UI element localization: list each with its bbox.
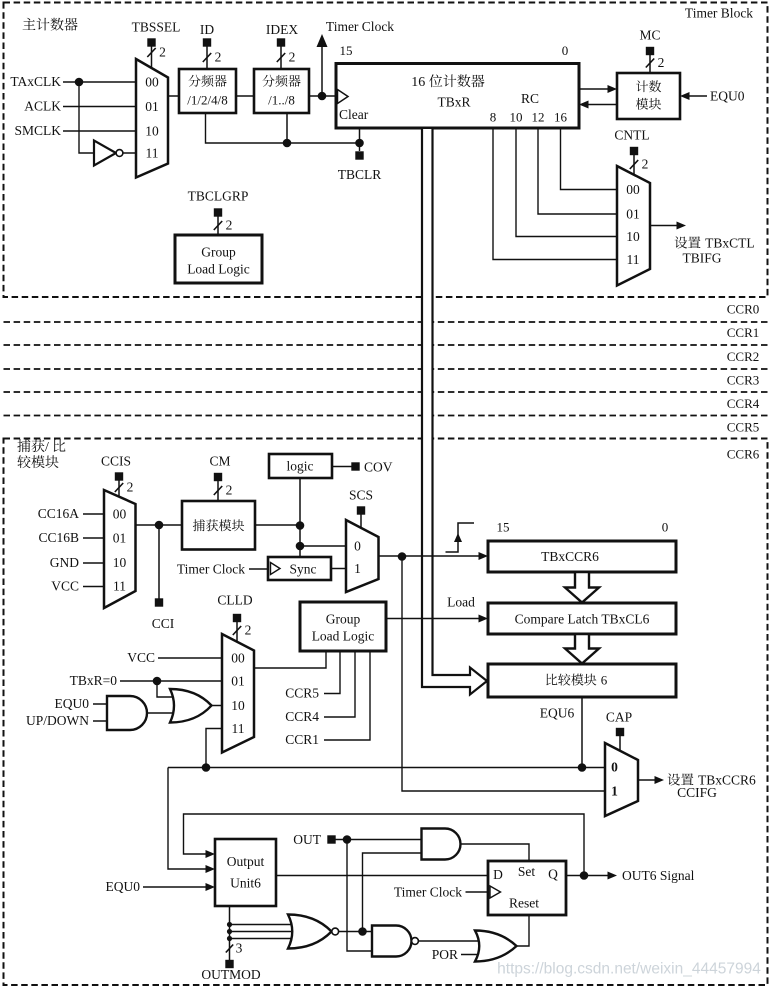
CCR1 row separator — [4, 344, 768, 346]
svg-text:12: 12 — [532, 110, 545, 125]
wire CCIS control — [118, 481, 120, 498]
svg-text:16: 16 — [554, 110, 568, 125]
wire outmod line1 to NOR — [230, 924, 294, 926]
svg-text:1: 1 — [611, 784, 618, 799]
svg-text:Timer Block: Timer Block — [685, 6, 753, 21]
svg-text:TBxCTL: TBxCTL — [705, 236, 755, 251]
svg-text:Compare Latch TBxCL6: Compare Latch TBxCL6 — [515, 612, 650, 627]
mux CNTL — [617, 166, 650, 286]
wire NAND to POR-OR — [419, 940, 481, 942]
wire TAxCLK input — [63, 81, 136, 83]
NOR gate — [288, 915, 332, 949]
wire outmod line3 to NOR — [230, 938, 294, 940]
svg-text:CCI: CCI — [152, 616, 175, 631]
wire POR input — [461, 954, 481, 956]
counter to count module arrow — [579, 88, 610, 90]
box Sync — [268, 557, 331, 580]
box Output Unit6 — [215, 839, 276, 906]
svg-text:VCC: VCC — [51, 579, 79, 594]
svg-text:00: 00 — [231, 651, 245, 666]
wire CCR1 to group load — [324, 651, 370, 740]
wire EQU0 input arrow — [687, 95, 707, 97]
node outmod tap 1 — [227, 922, 232, 927]
svg-text:D: D — [493, 867, 503, 882]
svg-text:Clear: Clear — [339, 107, 369, 122]
node Timer Clock junction — [318, 92, 327, 101]
control MC square — [646, 47, 654, 55]
edge step symbol — [446, 523, 475, 552]
svg-text:CCR1: CCR1 — [285, 732, 319, 747]
CCR2 row separator — [4, 368, 768, 370]
wire clear stub — [359, 128, 361, 143]
wire CNTL control — [633, 155, 635, 176]
svg-text:SCS: SCS — [349, 488, 373, 503]
svg-text:2: 2 — [127, 480, 134, 495]
wire output unit to D — [276, 875, 488, 877]
svg-text:OUT6 Signal: OUT6 Signal — [622, 868, 695, 883]
svg-text:Load Logic: Load Logic — [312, 629, 375, 644]
control OUT square — [327, 835, 335, 843]
wire GND input — [83, 562, 104, 564]
wire CCR5 to group load — [324, 651, 340, 694]
svg-text:Group: Group — [326, 612, 361, 627]
wire CCR4 to group load — [324, 651, 355, 717]
label 捕获/比较模块 — [17, 439, 65, 468]
svg-text:10: 10 — [626, 229, 640, 244]
svg-text:Unit6: Unit6 — [230, 876, 261, 891]
hollow arrow latch to comparator — [565, 634, 599, 664]
svg-text:EQU0: EQU0 — [55, 696, 90, 711]
svg-text:TBxR: TBxR — [437, 95, 470, 110]
svg-text:TBxCCR6: TBxCCR6 — [541, 549, 599, 564]
CCR3 row separator — [4, 391, 768, 393]
count module to counter arrow — [586, 104, 617, 106]
wire OR to CLLD 10 — [212, 705, 223, 707]
wire UPDOWN to AND — [93, 720, 107, 722]
svg-text:1: 1 — [354, 561, 361, 576]
control TBCLGRP square — [214, 208, 222, 216]
wire EQU0 to output unit — [143, 886, 208, 888]
svg-text:01: 01 — [626, 207, 640, 222]
control TBCLR square — [355, 151, 363, 159]
svg-text:ACLK: ACLK — [24, 99, 61, 114]
wire EQU6 to CAP 0 — [582, 767, 605, 769]
wire logic bottom — [299, 478, 301, 557]
wire AND to Set — [461, 844, 529, 861]
node NOR-AND branch — [358, 927, 367, 936]
label 主计数器 — [23, 18, 78, 31]
wire timer clock to sync — [249, 568, 268, 570]
wire sync to SCS input 1 — [331, 568, 346, 570]
svg-text:Set: Set — [518, 864, 536, 879]
node capture path junction — [398, 552, 407, 561]
box Group Load Logic (timer block) — [175, 235, 262, 283]
wire OUT line — [336, 839, 422, 841]
svg-text:OUTMOD: OUTMOD — [201, 967, 260, 982]
wire AND to OR — [148, 712, 178, 714]
wire ID to IDEX — [236, 95, 254, 97]
node CLLD-11 branch — [202, 763, 211, 772]
mux SCS — [346, 520, 379, 592]
divider box IDEX /1../8 — [254, 69, 309, 113]
svg-text:CCIS: CCIS — [101, 454, 131, 469]
svg-text:/1../8: /1../8 — [268, 93, 295, 108]
wire CNTL output arrow — [650, 225, 679, 227]
svg-text:TBxR=0: TBxR=0 — [70, 673, 118, 688]
svg-text:VCC: VCC — [127, 650, 155, 665]
svg-text:Load: Load — [447, 595, 475, 610]
wire ACLK input — [63, 106, 136, 108]
control SCS square — [357, 506, 365, 514]
wire IDEX bottom — [286, 113, 288, 143]
svg-text:3: 3 — [236, 941, 243, 956]
control CLLD square — [233, 614, 241, 622]
clock input triangle — [338, 90, 349, 104]
bus hollow arrow TBxR to compare module — [422, 129, 487, 695]
svg-text:11: 11 — [113, 579, 126, 594]
box 计数模块 count module — [617, 73, 680, 119]
label 设置 TBxCTL — [675, 236, 755, 251]
svg-text:CCIFG: CCIFG — [677, 785, 717, 800]
svg-text:CC16A: CC16A — [38, 506, 80, 521]
mux TBSSEL — [136, 59, 168, 178]
wire CLLD output to group load — [254, 651, 326, 668]
svg-text:Load Logic: Load Logic — [187, 262, 250, 277]
wire RC bit8 to CNTL 11 — [493, 128, 617, 260]
svg-text:OUT: OUT — [293, 832, 321, 847]
svg-text:11: 11 — [232, 721, 245, 736]
divider box ID /1/2/4/8 — [179, 69, 236, 113]
wire ID control — [206, 47, 208, 70]
svg-text:CCR5: CCR5 — [727, 420, 760, 435]
svg-text:00: 00 — [145, 75, 159, 90]
inverter INCLK — [94, 141, 116, 166]
svg-text:2: 2 — [226, 218, 233, 233]
svg-text:2: 2 — [642, 157, 649, 172]
svg-text:Reset: Reset — [509, 896, 539, 911]
svg-text:EQU6: EQU6 — [540, 706, 575, 721]
wire SCS output to TBxCCR6 — [379, 555, 482, 557]
wire VCC input — [83, 586, 104, 588]
node Clear junction — [355, 139, 364, 148]
control IDEX square — [277, 38, 285, 46]
CCR0 row separator — [4, 321, 768, 323]
wire NOR to NAND — [339, 931, 372, 933]
control CAP square — [616, 728, 624, 736]
svg-text:logic: logic — [287, 459, 314, 474]
svg-text:16: 16 — [411, 75, 425, 90]
register Compare Latch TBxCL6 — [488, 603, 676, 634]
svg-text:15: 15 — [340, 43, 353, 58]
wire TBCLGRP control — [217, 217, 219, 236]
svg-text:CM: CM — [209, 454, 230, 469]
node OUT junction — [343, 835, 352, 844]
wire CAP output arrow — [638, 779, 657, 781]
wire ID bottom to clear line — [206, 113, 360, 143]
svg-text:GND: GND — [50, 555, 79, 570]
D flip-flop — [488, 861, 566, 915]
svg-text:Q: Q — [548, 867, 558, 882]
node SCS-0 junction — [296, 542, 305, 551]
svg-text:CCR3: CCR3 — [727, 373, 760, 388]
svg-text:2: 2 — [226, 483, 233, 498]
register TBxR 16-bit counter box — [336, 64, 579, 129]
wire Timer Clock up arrow — [321, 46, 323, 96]
box Group Load Logic ccr6 — [300, 602, 386, 651]
wire CCI drop — [158, 525, 160, 599]
wire outmod line2 to NOR — [230, 931, 292, 933]
wire RC bit10 to CNTL 10 — [516, 128, 617, 237]
svg-text:RC: RC — [521, 91, 539, 106]
svg-text:https://blog.csdn.net/weixin_4: https://blog.csdn.net/weixin_44457994 — [497, 961, 761, 978]
wire EQU0 to AND — [93, 703, 107, 705]
node capture-logic junction — [296, 521, 305, 530]
control COV square — [351, 462, 359, 470]
wire CLLD control — [236, 622, 238, 642]
OR gate POR — [475, 931, 517, 962]
svg-text:0: 0 — [562, 43, 569, 58]
NAND gate — [372, 925, 411, 956]
svg-text:8: 8 — [490, 110, 497, 125]
svg-text:/1/2/4/8: /1/2/4/8 — [187, 93, 227, 108]
mux CCIS — [104, 490, 136, 608]
wire INCLK branch — [79, 82, 94, 153]
svg-text:/: / — [45, 440, 49, 455]
svg-text:15: 15 — [497, 520, 510, 535]
control TBSSEL square — [147, 38, 155, 46]
node IDEX clear junction — [283, 139, 292, 148]
svg-text:CCR4: CCR4 — [285, 709, 319, 724]
svg-text:TBSSEL: TBSSEL — [132, 20, 181, 35]
svg-text:2: 2 — [215, 50, 222, 65]
svg-text:10: 10 — [113, 555, 127, 570]
register TBxCCR6 — [488, 541, 676, 572]
wire timer clock to ff — [466, 891, 489, 893]
svg-text:EQU0: EQU0 — [106, 879, 141, 894]
svg-text:00: 00 — [626, 182, 640, 197]
svg-text:CCR4: CCR4 — [727, 396, 760, 411]
mux CLLD — [222, 634, 254, 753]
svg-text:Timer Clock: Timer Clock — [326, 19, 394, 34]
box logic — [269, 454, 332, 478]
wire branch to CLLD 11 — [206, 729, 222, 768]
node outmod tap 3 — [227, 936, 232, 941]
wire EQU6 distribution — [168, 767, 582, 769]
CCR4 row separator — [4, 415, 768, 417]
wire VCC to CLLD 00 — [158, 657, 222, 659]
svg-text:2: 2 — [245, 623, 252, 638]
hollow arrow TBxCCR6 to latch — [565, 572, 599, 603]
svg-text:0: 0 — [611, 760, 618, 775]
svg-text:10: 10 — [510, 110, 523, 125]
control OUTMOD square — [225, 960, 233, 968]
wire EQU6 to output unit — [168, 768, 208, 870]
control ID square — [203, 38, 211, 46]
svg-text:10: 10 — [231, 698, 245, 713]
wire CCIS mux output — [136, 524, 183, 526]
svg-text:CCR2: CCR2 — [727, 349, 760, 364]
wire mux to ID — [168, 95, 179, 97]
svg-text:CCR5: CCR5 — [285, 686, 319, 701]
wire CAP control — [619, 736, 621, 751]
svg-text:0: 0 — [354, 539, 361, 554]
wire RC bit16 to CNTL 00 — [561, 128, 618, 190]
control CNTL square — [630, 147, 638, 155]
wire OUTMOD control — [229, 906, 231, 960]
wire TBxR0 to OR — [157, 681, 176, 697]
svg-text:Timer Clock: Timer Clock — [177, 562, 245, 577]
svg-text:0: 0 — [662, 520, 669, 535]
wire OUT down to NAND — [347, 840, 372, 952]
svg-text:COV: COV — [364, 460, 393, 475]
svg-text:01: 01 — [231, 674, 245, 689]
svg-text:2: 2 — [289, 50, 296, 65]
wire TBSSEL control — [151, 47, 153, 69]
svg-text:CCR6: CCR6 — [727, 447, 760, 462]
svg-text:11: 11 — [146, 146, 159, 161]
svg-text:CNTL: CNTL — [614, 128, 649, 143]
control CCI square — [155, 598, 163, 606]
wire OR to Reset — [517, 915, 530, 946]
wire IDEX control — [280, 47, 282, 70]
wire group load to latch arrow — [386, 618, 481, 620]
svg-text:TBCLGRP: TBCLGRP — [188, 189, 249, 204]
wire EQU6 down — [581, 697, 583, 768]
wire capture module output — [255, 524, 300, 526]
control CM square — [214, 473, 222, 481]
CCR6 dashed border — [4, 439, 768, 986]
wire CM control — [217, 481, 219, 501]
node TAxCLK junction — [75, 78, 84, 87]
svg-text:2: 2 — [658, 55, 665, 70]
svg-text:2: 2 — [159, 45, 166, 60]
wire MC control — [649, 55, 651, 73]
wire RC bit12 to CNTL 01 — [538, 128, 617, 214]
comparator box 比较模块 6 — [488, 664, 676, 697]
svg-text:ID: ID — [200, 22, 214, 37]
wire logic to COV — [332, 466, 352, 468]
AND gate out — [422, 829, 461, 860]
OR gate clld — [170, 689, 212, 723]
wire TBxR=0 to CLLD 01 — [120, 680, 222, 682]
svg-text:IDEX: IDEX — [266, 22, 298, 37]
svg-text:TBCLR: TBCLR — [338, 167, 382, 182]
svg-text:TAxCLK: TAxCLK — [10, 74, 61, 89]
Timer Block dashed border — [4, 3, 768, 298]
node EQU6 junction — [578, 763, 587, 772]
svg-text:CAP: CAP — [606, 710, 632, 725]
box 捕获模块 capture module — [182, 501, 255, 550]
svg-text:01: 01 — [145, 99, 159, 114]
wire Q output — [566, 875, 610, 877]
svg-text:MC: MC — [639, 28, 660, 43]
svg-text:Timer Clock: Timer Clock — [394, 885, 462, 900]
svg-text:00: 00 — [113, 507, 127, 522]
wire SMCLK input — [63, 130, 136, 132]
svg-text:10: 10 — [145, 124, 159, 139]
wire CC16B input — [83, 537, 104, 539]
wire branch up to AND — [363, 853, 422, 932]
svg-text:11: 11 — [627, 252, 640, 267]
node OUT6 junction — [580, 871, 589, 880]
svg-text:CC16B: CC16B — [38, 530, 79, 545]
wire IDEX to counter — [309, 95, 336, 97]
svg-text:6: 6 — [601, 673, 608, 688]
wire OUT6 feedback — [184, 814, 585, 876]
svg-text:UP/DOWN: UP/DOWN — [26, 713, 89, 728]
svg-text:CCR0: CCR0 — [727, 302, 760, 317]
wire to SCS input 0 — [300, 545, 346, 547]
svg-text:TBIFG: TBIFG — [682, 251, 721, 266]
node TBxR0 branch — [153, 677, 162, 686]
control CCIS square — [115, 472, 123, 480]
svg-text:01: 01 — [113, 531, 127, 546]
node CCI junction — [155, 521, 164, 530]
svg-text:EQU0: EQU0 — [710, 89, 745, 104]
svg-text:CCR1: CCR1 — [727, 325, 760, 340]
svg-text:CLLD: CLLD — [217, 593, 252, 608]
svg-text:POR: POR — [432, 947, 458, 962]
AND gate clld — [107, 696, 147, 730]
svg-text:Group: Group — [201, 245, 236, 260]
label 设置 TBxCCR6 — [668, 773, 756, 788]
wire CC16A input — [83, 513, 104, 515]
node outmod tap 2 — [227, 929, 232, 934]
wire SCS control — [360, 515, 362, 529]
wire capture path down to CAP 1 — [402, 557, 605, 792]
svg-text:Output: Output — [227, 854, 265, 869]
svg-text:SMCLK: SMCLK — [14, 123, 61, 138]
wire inverter to mux — [123, 152, 136, 154]
mux CAP — [605, 743, 638, 816]
svg-text:Sync: Sync — [290, 562, 317, 577]
